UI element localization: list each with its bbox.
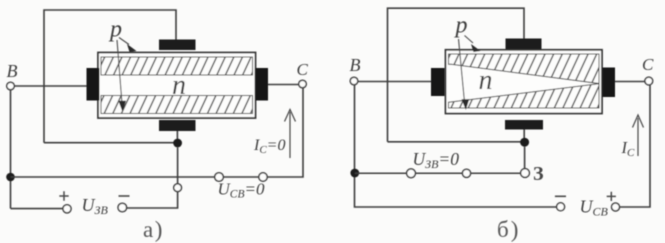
- svg-text:n: n: [172, 70, 186, 101]
- gate socket circle: [174, 184, 182, 192]
- junction node at left rail: [6, 173, 15, 182]
- wire: right contact to C: [268, 84, 299, 86]
- label p with leader arrows: [108, 17, 137, 113]
- label p with leader arrows: [454, 13, 481, 111]
- wire: loop bottom horizontal: [388, 141, 525, 143]
- wire: bottom rail to first socket: [11, 176, 215, 178]
- top gate metal contact (black bar): [506, 39, 542, 50]
- right drain contact (black bar): [256, 68, 269, 101]
- wire: B to left contact: [14, 85, 86, 87]
- current arrow Ic=0: [289, 112, 291, 158]
- plus sign: [59, 191, 68, 200]
- wire: plus terminal to left rail: [11, 208, 63, 210]
- battery terminal circle (plus): [612, 203, 620, 211]
- p region bottom (hatched wedge): [449, 84, 600, 108]
- arrow to top p region: [119, 38, 129, 45]
- wire: B down to rail and bottom branch: [355, 85, 557, 207]
- current arrow Ic: [637, 118, 639, 156]
- wire between sockets: [415, 172, 462, 174]
- wire: right contact to C: [615, 81, 645, 83]
- wire: B to left contact: [358, 81, 431, 83]
- svg-text:В: В: [7, 61, 18, 81]
- gate socket circle: [521, 169, 530, 178]
- plus sign: [607, 192, 616, 201]
- wire: rail to first socket: [355, 172, 407, 174]
- svg-text:n: n: [479, 65, 493, 96]
- socket circle 2 of Uзв=0 link: [462, 169, 470, 177]
- socket circle 2 of Ucb=0 link: [259, 173, 267, 181]
- svg-text:З: З: [533, 163, 544, 185]
- socket circle 1 of Uзв=0 link: [407, 169, 416, 178]
- socket circle 1 of Ucb=0 link: [215, 173, 224, 182]
- svg-text:UСВ=0: UСВ=0: [218, 180, 265, 201]
- wire: top gate loop: [388, 8, 525, 142]
- svg-text:б): б): [497, 217, 520, 242]
- arrow to bottom p region: [459, 39, 465, 100]
- svg-text:IС=0: IС=0: [253, 137, 285, 156]
- wire: top gate loop (left vertical, top horizontal, down to top contact): [44, 10, 176, 143]
- svg-text:IС: IС: [621, 138, 636, 159]
- svg-text:UСВ: UСВ: [580, 197, 609, 219]
- terminal C circle: [299, 80, 307, 88]
- transistor body outline: [446, 50, 603, 114]
- terminal B circle: [350, 77, 358, 85]
- arrow to bottom p region: [117, 40, 122, 101]
- wire: loop bottom horizontal: [44, 142, 178, 144]
- transistor body outline: [98, 53, 256, 119]
- terminal B circle: [7, 82, 15, 90]
- svg-text:В: В: [350, 55, 361, 75]
- p region top (hatched wedge): [449, 54, 600, 84]
- minus sign: [555, 195, 566, 197]
- wire: bottom contact to gate node: [523, 130, 525, 139]
- bottom gate metal contact (black bar): [159, 120, 196, 131]
- svg-text:UЗВ=0: UЗВ=0: [413, 149, 460, 171]
- battery terminal circle (minus): [557, 203, 565, 211]
- wire: plus terminal to right riser up to C: [619, 85, 650, 207]
- left source contact (black bar): [87, 68, 100, 101]
- wire: gate node down to gate socket: [524, 147, 526, 169]
- minus sign: [119, 195, 130, 197]
- svg-text:С: С: [642, 55, 654, 74]
- svg-text:UЗВ: UЗВ: [82, 195, 109, 217]
- p region top (hatched strip): [101, 57, 253, 75]
- battery terminal circle (minus): [118, 203, 127, 212]
- battery terminal circle (plus): [63, 205, 71, 213]
- wire: rail to right riser: [267, 88, 303, 177]
- arrow to top p region: [465, 36, 474, 44]
- top gate metal contact (black bar): [159, 40, 196, 51]
- wire: B down to bottom rail and battery branch: [10, 90, 12, 209]
- wire: bottom contact to gate node: [176, 131, 178, 139]
- terminal C circle: [645, 77, 653, 85]
- left source contact (black bar): [431, 68, 445, 96]
- wire: gate node down to socket: [177, 147, 179, 183]
- junction node on rail: [350, 169, 359, 178]
- right drain contact (black bar): [603, 68, 616, 98]
- gate junction node: [520, 138, 529, 147]
- wire between sockets: [223, 176, 258, 178]
- bottom gate metal contact (black bar): [505, 120, 543, 130]
- svg-text:С: С: [297, 60, 309, 79]
- wire to gate socket: [471, 172, 521, 174]
- p region bottom (hatched strip): [101, 96, 253, 114]
- gate junction node: [173, 139, 182, 148]
- svg-text:p: p: [454, 13, 468, 39]
- svg-text:а): а): [143, 217, 164, 242]
- wire: socket down and left to battery: [127, 192, 178, 208]
